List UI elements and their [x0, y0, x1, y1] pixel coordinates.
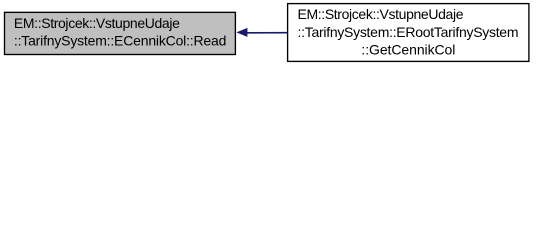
svg-text:::TarifnySystem::ERootTarifnyS: ::TarifnySystem::ERootTarifnySystem [298, 24, 519, 40]
svg-text:EM::Strojcek::VstupneUdaje: EM::Strojcek::VstupneUdaje [14, 15, 180, 31]
svg-text:::GetCennikCol: ::GetCennikCol [361, 41, 455, 57]
svg-text:::TarifnySystem::ECennikCol::R: ::TarifnySystem::ECennikCol::Read [14, 32, 227, 48]
node: ERootTarifnySystem::GetCennikCol (white) [288, 4, 529, 62]
edge arrowhead [236, 28, 247, 37]
node: ECennikCol::Read (current, grey) [5, 12, 236, 54]
doxygen caller-graph [0, 0, 536, 67]
edge wire [247, 32, 288, 34]
svg-text:EM::Strojcek::VstupneUdaje: EM::Strojcek::VstupneUdaje [298, 6, 464, 22]
